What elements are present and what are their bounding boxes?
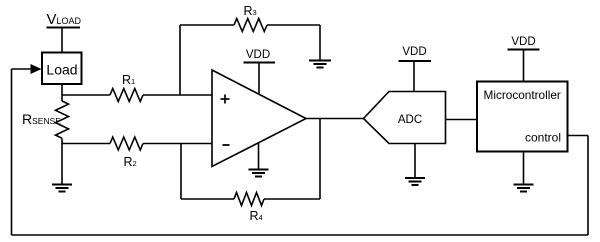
wire control output right — [568, 135, 589, 137]
ground for microcontroller — [514, 185, 534, 192]
wire Load bottom to RSENSE — [61, 84, 63, 101]
svg-text:ADC: ADC — [398, 114, 422, 126]
arrowhead into Load — [31, 64, 42, 74]
resistor R2 — [110, 137, 143, 150]
svg-text:VDD: VDD — [246, 49, 270, 61]
wire microcontroller bottom to ground — [523, 152, 525, 185]
resistor R1 — [110, 89, 143, 102]
wire feedback right side down — [587, 136, 589, 236]
wire junction plus-input up to R3 — [179, 25, 181, 95]
wire node B to R2 — [62, 143, 110, 145]
wire ADC to microcontroller — [446, 119, 478, 121]
wire feedback bottom — [12, 234, 589, 236]
ground for R3 — [309, 61, 331, 68]
resistor RSENSE — [56, 101, 69, 138]
resistor R4 — [234, 193, 264, 206]
ground for ADC — [405, 178, 425, 185]
wire ADC bottom to ground — [414, 144, 416, 178]
wire R2 to op-amp minus input — [143, 143, 212, 145]
load block box — [42, 53, 82, 85]
ADC block shape — [364, 92, 446, 144]
wire R3 left segment — [180, 24, 234, 26]
wire R1 to op-amp plus input — [143, 94, 212, 96]
wire feedback into Load arrow — [12, 68, 31, 70]
wire R4 up to output node — [319, 119, 321, 200]
svg-text:R1: R1 — [122, 73, 135, 87]
svg-text:control: control — [525, 131, 561, 145]
ADC VDD bar — [399, 60, 432, 62]
svg-text:RSENSE: RSENSE — [22, 111, 61, 127]
op-amp plus pin mark — [221, 95, 230, 104]
wire node A to R1 — [62, 94, 110, 96]
wire VDD to ADC top — [413, 61, 415, 92]
svg-text:R2: R2 — [124, 155, 137, 169]
svg-text:VDD: VDD — [511, 36, 535, 48]
op-amp minus pin mark — [223, 144, 230, 146]
ground for op-amp — [249, 170, 269, 177]
wire R3 down to ground — [319, 25, 321, 60]
wire VLOAD to Load box — [61, 28, 63, 53]
svg-text:Load: Load — [46, 62, 77, 78]
microcontroller U2 box — [477, 82, 568, 152]
wire op-amp bottom to ground — [258, 143, 260, 170]
wire R4 right segment — [264, 198, 320, 200]
wire R3 right segment — [267, 24, 320, 26]
svg-text:R4: R4 — [250, 209, 263, 223]
wire VDD to microcontroller top — [523, 50, 525, 82]
svg-text:Microcontroller: Microcontroller — [484, 88, 561, 102]
wire minus-input down to R4 — [180, 144, 182, 200]
wire RSENSE to ground — [61, 138, 63, 184]
svg-text:R3: R3 — [244, 4, 257, 18]
svg-text:VDD: VDD — [402, 46, 426, 58]
microcontroller VDD bar — [508, 49, 540, 51]
op-amp VDD bar — [244, 62, 276, 64]
power rail VLOAD bar — [47, 27, 81, 29]
wire VDD to op-amp top — [258, 63, 260, 95]
ground below RSENSE — [52, 185, 72, 192]
wire feedback left side up — [11, 69, 13, 235]
wire R4 left segment — [181, 198, 234, 200]
wire op-amp output to ADC — [306, 118, 364, 120]
op-amp U1 triangle — [212, 70, 306, 167]
svg-text:VLOAD: VLOAD — [47, 11, 82, 28]
resistor R3 — [234, 19, 267, 32]
